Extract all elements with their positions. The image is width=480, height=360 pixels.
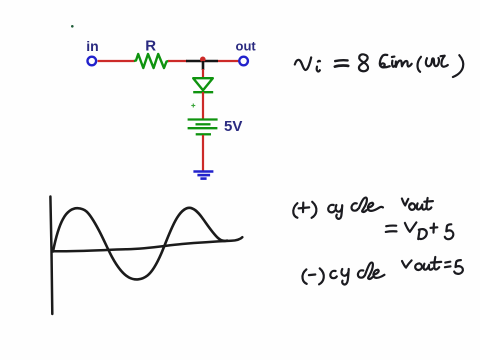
- annotation (-) cycle Vout = 5: [302, 257, 462, 284]
- wire node down (black stub): [202, 61, 205, 70]
- svg-text:5V: 5V: [224, 118, 242, 135]
- junction node dot: [200, 57, 206, 63]
- wire node to out: [218, 60, 239, 62]
- wire across node (black): [186, 60, 218, 63]
- waveform sine curve: [53, 208, 227, 280]
- diode D1: [193, 78, 213, 92]
- wire battery to ground (red): [202, 135, 204, 171]
- svg-text:R: R: [145, 37, 156, 54]
- battery plus mark: [191, 104, 195, 108]
- waveform y-axis: [50, 197, 52, 315]
- wire diode to battery (red): [202, 92, 204, 119]
- ground: [193, 172, 213, 179]
- stray dot: [71, 25, 74, 28]
- waveform x-axis: [52, 237, 243, 251]
- annotation = VD + 5: [386, 222, 454, 239]
- svg-text:in: in: [86, 38, 98, 54]
- annotation Vi = 8 sin(wt): [295, 54, 463, 77]
- wire stub to diode (red): [202, 69, 204, 79]
- svg-text:out: out: [236, 38, 257, 53]
- terminal out: [239, 57, 248, 66]
- terminal in: [88, 57, 97, 66]
- resistor R: [134, 54, 169, 68]
- wire in to resistor: [98, 60, 135, 62]
- battery V1 5V: [188, 120, 218, 135]
- wire resistor to node: [168, 60, 187, 62]
- annotation (+) cycle Vout: [293, 198, 433, 219]
